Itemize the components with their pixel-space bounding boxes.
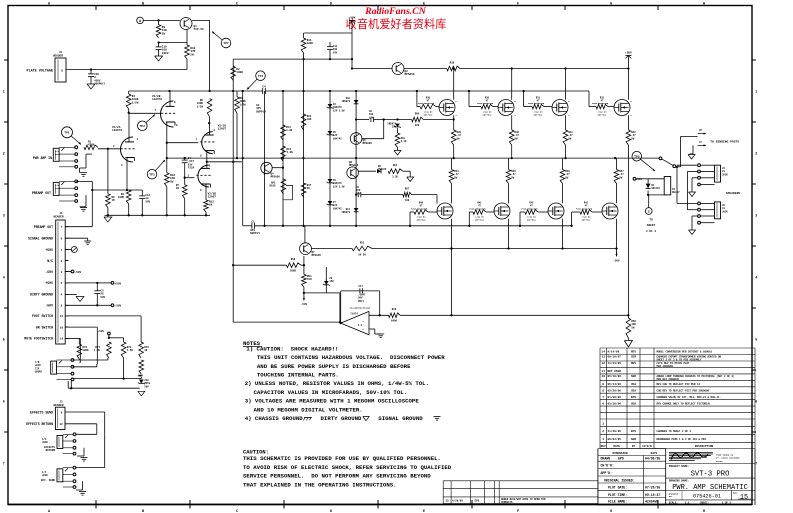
svg-text:TIP-50: TIP-50 — [194, 28, 204, 31]
svg-text:USA: USA — [631, 383, 636, 386]
svg-text:1M: 1M — [112, 199, 116, 202]
svg-text:SHEET 2 OF 3 & TB PCB ASSEMBLY: SHEET 2 OF 3 & TB PCB ASSEMBLY — [657, 359, 703, 362]
svg-text:1N4148: 1N4148 — [651, 187, 660, 190]
svg-text:R67: R67 — [405, 188, 410, 191]
svg-text:100K: 100K — [307, 42, 314, 45]
svg-text:DNP/B12: DNP/B12 — [527, 219, 536, 222]
svg-text:12: 12 — [59, 423, 63, 426]
svg-text:1: 1 — [3, 90, 5, 94]
svg-text:5W: 5W — [515, 137, 519, 140]
svg-text:+50V: +50V — [45, 281, 53, 285]
svg-text:EFFECTS SEND: EFFECTS SEND — [30, 410, 53, 414]
svg-text:06/02/95: 06/02/95 — [608, 437, 622, 441]
svg-text:1N4742: 1N4742 — [333, 207, 342, 210]
svg-text:09/10/97: 09/10/97 — [608, 355, 622, 359]
svg-text:POLY: POLY — [358, 300, 365, 303]
svg-text:FILM: FILM — [188, 167, 195, 170]
svg-text:-50V: -50V — [613, 260, 620, 263]
svg-text:5W: 5W — [511, 176, 515, 179]
svg-text:4/14/98: 4/14/98 — [608, 350, 620, 354]
svg-text:CHANGED VALUE OF C27, R13, R20: CHANGED VALUE OF C27, R13, R20-21 & R40-… — [657, 396, 722, 399]
svg-text:15K: 15K — [307, 278, 312, 281]
svg-text:14: 14 — [601, 351, 605, 354]
svg-text:7: 7 — [3, 462, 5, 466]
svg-text:NOT USED: NOT USED — [608, 370, 622, 373]
svg-text:05/14/96: 05/14/96 — [608, 382, 622, 386]
svg-text:05/10/96: 05/10/96 — [608, 374, 622, 378]
svg-text:B: B — [142, 3, 144, 7]
svg-text:DRAWN: DRAWN — [601, 457, 611, 461]
svg-text:12AU7: 12AU7 — [218, 128, 227, 131]
svg-text:13: 13 — [601, 356, 605, 359]
svg-text:PLOT DATE:: PLOT DATE: — [608, 486, 627, 490]
svg-text:H: H — [703, 3, 705, 7]
svg-text:+: + — [362, 328, 364, 331]
svg-text:+50V: +50V — [625, 52, 632, 55]
svg-text:R53: R53 — [360, 242, 365, 245]
svg-text:05/16/94: 05/16/94 — [608, 401, 622, 405]
svg-text:1.5K: 1.5K — [94, 349, 101, 352]
svg-text:1N4742: 1N4742 — [333, 137, 342, 140]
svg-text:5W: 5W — [568, 137, 572, 140]
svg-text:15: 15 — [445, 500, 449, 503]
svg-text:01/30/96: 01/30/96 — [608, 395, 622, 399]
svg-text:220: 220 — [415, 124, 420, 127]
svg-text:RadioFans.CN: RadioFans.CN — [364, 6, 427, 17]
svg-text:C4: C4 — [262, 86, 266, 89]
svg-text:—: — — [361, 320, 364, 323]
svg-text:2) UNLESS NOTED, RESISTOR VALU: 2) UNLESS NOTED, RESISTOR VALUES IN OHMS… — [245, 380, 429, 387]
svg-text:5: 5 — [755, 338, 757, 342]
svg-text:8: 8 — [61, 70, 63, 73]
svg-text:1N5979: 1N5979 — [341, 211, 350, 214]
svg-text:100V: 100V — [162, 52, 169, 55]
svg-text:6490: 6490 — [391, 320, 398, 323]
svg-text:11: 11 — [601, 370, 605, 373]
svg-text:4: 4 — [755, 276, 757, 280]
svg-text:SER: SER — [631, 375, 636, 378]
svg-text:100POLY: 100POLY — [94, 83, 105, 86]
svg-text:475K: 475K — [88, 144, 95, 147]
svg-text:1M: 1M — [176, 187, 180, 190]
svg-text:AND 10 MEGOHM DIGITAL VOLTMETE: AND 10 MEGOHM DIGITAL VOLTMETER. — [254, 406, 363, 413]
svg-text:J1: J1 — [59, 212, 63, 215]
svg-text:G: G — [648, 210, 650, 213]
svg-text:THAT EXPLAINED IN THE OPERATIN: THAT EXPLAINED IN THE OPERATING INSTRUCT… — [243, 481, 397, 488]
svg-text:MPSA56: MPSA56 — [405, 73, 415, 76]
svg-text:9: 9 — [602, 383, 604, 386]
svg-text:PREAMP OUT: PREAMP OUT — [32, 191, 51, 195]
svg-text:JACK: JACK — [42, 441, 48, 444]
svg-text:BIAS: BIAS — [269, 185, 276, 188]
svg-text:REV CHANGE ONLY TO REFLECT PIC: REV CHANGE ONLY TO REFLECT PICTORIAL — [657, 402, 712, 405]
svg-text:3.3K: 3.3K — [392, 176, 398, 179]
svg-text:CORRECTS: CORRECTS — [501, 501, 513, 504]
svg-text:05/20/96: 05/20/96 — [608, 388, 622, 392]
svg-text:5W: 5W — [619, 176, 623, 179]
svg-text:5W: 5W — [631, 137, 635, 140]
svg-text:100K: 100K — [118, 196, 125, 199]
svg-text:7: 7 — [602, 396, 604, 399]
svg-text:REORDERED PINS 1 & 2 OF J10 &: REORDERED PINS 1 & 2 OF J10 & PB1. — [657, 438, 708, 441]
svg-text:EPS: EPS — [475, 500, 480, 503]
svg-text:MPSA06: MPSA06 — [363, 142, 373, 145]
svg-text:12AU7: 12AU7 — [208, 196, 217, 199]
svg-text:-50V: -50V — [45, 270, 53, 274]
svg-text:FUSE-RESISTOR: FUSE-RESISTOR — [592, 102, 609, 105]
svg-text:DNP/B12: DNP/B12 — [483, 113, 492, 116]
svg-text:-50V: -50V — [301, 303, 308, 306]
svg-text:DNP/B12: DNP/B12 — [475, 219, 484, 222]
svg-text:+50V: +50V — [115, 282, 122, 285]
svg-text:C: C — [236, 3, 238, 7]
svg-text:THIS SCHEMATIC IS PROVIDED FOR: THIS SCHEMATIC IS PROVIDED FOR USE BY QU… — [243, 455, 441, 462]
svg-text:FUSE-RESISTOR: FUSE-RESISTOR — [469, 207, 486, 210]
svg-text:1N5979: 1N5979 — [341, 100, 350, 103]
svg-text:F: F — [517, 3, 519, 7]
svg-text:CH'K'D:: CH'K'D: — [601, 464, 614, 468]
svg-text:15V: 15V — [329, 280, 334, 283]
svg-text:390K: 390K — [82, 349, 89, 352]
svg-text:1W: 1W — [170, 180, 174, 183]
svg-text:MPSA56: MPSA56 — [312, 254, 322, 257]
svg-text:R19: R19 — [392, 308, 397, 311]
svg-text:J2: J2 — [59, 51, 63, 54]
svg-text:5W: 5W — [565, 176, 569, 179]
svg-text:REV: REV — [631, 362, 636, 365]
svg-text:8: 8 — [602, 389, 604, 392]
svg-text:DATE: DATE — [613, 445, 620, 448]
svg-text:FUSE-RESISTOR: FUSE-RESISTOR — [418, 102, 435, 105]
svg-text:收音机爱好者资料库: 收音机爱好者资料库 — [346, 17, 447, 31]
svg-text:PLOT TIME:: PLOT TIME: — [608, 493, 627, 497]
svg-text:09:19:47: 09:19:47 — [645, 493, 660, 497]
svg-text:4: 4 — [3, 276, 5, 280]
svg-text:SER: SER — [631, 438, 636, 441]
svg-text:DNP/B12: DNP/B12 — [417, 219, 426, 222]
svg-text:5W: 5W — [631, 326, 635, 329]
svg-text:DNP/B12: DNP/B12 — [534, 113, 543, 116]
svg-text:TO: TO — [649, 219, 653, 222]
svg-text:-50V: -50V — [45, 304, 53, 308]
svg-text:6: 6 — [3, 400, 5, 404]
svg-text:1.5K: 1.5K — [127, 349, 134, 352]
svg-text:2: 2 — [602, 430, 604, 433]
svg-text:5W: 5W — [457, 137, 461, 140]
svg-text:DNP/B12: DNP/B12 — [598, 113, 607, 116]
svg-text:200K: 200K — [290, 270, 297, 273]
svg-text:12V-1.5W: 12V-1.5W — [333, 185, 345, 188]
svg-text:16V: 16V — [369, 116, 374, 119]
svg-text:5W: 5W — [454, 176, 458, 179]
svg-text:GR SWITCH: GR SWITCH — [36, 325, 53, 329]
svg-text:DIMENSION: DIMENSION — [612, 452, 627, 455]
svg-text:1K: 1K — [144, 349, 148, 352]
svg-text:1K 5W: 1K 5W — [358, 254, 366, 257]
svg-text:6: 6 — [755, 400, 757, 404]
svg-text:6: 6 — [602, 402, 604, 405]
svg-text:PREAMP OUT: PREAMP OUT — [34, 225, 53, 229]
svg-text:3) VOLTAGES ARE MEASURED WITH: 3) VOLTAGES ARE MEASURED WITH 1 MEGOHM O… — [245, 398, 420, 405]
svg-text:AND BE SURE POWER SUPPLY IS DI: AND BE SURE POWER SUPPLY IS DISCHARGED B… — [257, 363, 411, 370]
svg-text:10K: 10K — [307, 118, 312, 121]
svg-text:HEADER: HEADER — [53, 404, 63, 407]
svg-text:HEADER: HEADER — [53, 216, 63, 219]
svg-text:FOOT SWITCH: FOOT SWITCH — [32, 314, 53, 318]
svg-text:JACK: JACK — [42, 474, 48, 477]
svg-text:BY: BY — [632, 445, 636, 448]
svg-text:MPSA06: MPSA06 — [271, 176, 281, 179]
svg-text:2 OF 3: 2 OF 3 — [646, 230, 656, 233]
svg-text:100: 100 — [405, 199, 410, 202]
svg-text:50V: 50V — [100, 296, 105, 299]
svg-text:C1: C1 — [251, 221, 255, 224]
svg-text:NO.: NO. — [669, 495, 673, 498]
svg-text:EPS: EPS — [631, 396, 636, 399]
svg-text:RETURN: RETURN — [46, 449, 56, 452]
svg-text:11/13/96: 11/13/96 — [608, 361, 622, 365]
svg-text:4) CHASSIS GROUND: 4) CHASSIS GROUND — [245, 415, 304, 422]
svg-text:(3+4)(5V)(6=+5V): (3+4)(5V)(6=+5V) — [349, 307, 370, 310]
svg-text:SHUNT: SHUNT — [35, 371, 43, 374]
svg-text:50V: 50V — [145, 200, 150, 203]
svg-text:13: 13 — [60, 315, 64, 318]
svg-text:12AX7A: 12AX7A — [112, 129, 122, 132]
svg-text:+50V: +50V — [349, 17, 356, 20]
svg-text:REV: REV — [631, 351, 636, 354]
svg-text:12: 12 — [601, 362, 605, 365]
svg-text:12V-1.5W: 12V-1.5W — [333, 109, 345, 112]
svg-text:FUSE-RESISTOR: FUSE-RESISTOR — [411, 207, 428, 210]
svg-text:R50: R50 — [291, 258, 296, 261]
svg-text:PLATE VOLTAGE: PLATE VOLTAGE — [27, 70, 53, 74]
svg-text:DESCRIPTION: DESCRIPTION — [695, 445, 714, 448]
svg-text:DIRTY GROUND: DIRTY GROUND — [321, 415, 363, 422]
svg-text:REV CHG TO REFLECT PIC PER CJ: REV CHG TO REFLECT PIC PER CJ — [657, 383, 701, 386]
svg-text:EFFECTS RETURN: EFFECTS RETURN — [26, 422, 53, 426]
svg-text:5.6K: 5.6K — [287, 151, 294, 154]
svg-text:1K: 1K — [307, 187, 311, 190]
svg-text:3: 3 — [602, 423, 604, 426]
svg-text:C17: C17 — [359, 285, 364, 288]
svg-text:TP4: TP4 — [258, 75, 264, 78]
svg-text:I:1: I:1 — [358, 324, 363, 327]
svg-text:1/2W: 1/2W — [132, 100, 139, 104]
svg-text:REV: REV — [601, 445, 606, 448]
svg-text:14: 14 — [60, 338, 64, 341]
svg-text:G: G — [610, 3, 612, 7]
svg-text:USA: USA — [631, 402, 636, 405]
svg-text:TL074: TL074 — [350, 313, 358, 316]
svg-text:10: 10 — [601, 375, 605, 378]
svg-text:50V: 50V — [144, 385, 149, 388]
svg-text:04/05/95: 04/05/95 — [645, 457, 660, 461]
svg-text:TP7: TP7 — [223, 42, 229, 45]
svg-text:SPEAKERS: SPEAKERS — [726, 192, 741, 195]
svg-text:R36: R36 — [450, 62, 455, 65]
svg-text:DIRTY GROUND: DIRTY GROUND — [30, 293, 53, 297]
svg-text:3: 3 — [755, 214, 757, 218]
svg-text:APP'D:: APP'D: — [601, 471, 613, 475]
svg-text:2N5979: 2N5979 — [378, 168, 387, 171]
svg-text:SER: SER — [631, 356, 636, 359]
svg-text:EPS: EPS — [618, 457, 624, 461]
svg-text:TOUCHING INTERNAL PARTS.: TOUCHING INTERNAL PARTS. — [257, 372, 339, 379]
svg-text:FILE NAME:: FILE NAME: — [608, 500, 627, 504]
svg-text:USA: USA — [631, 389, 636, 392]
svg-text:DATE: DATE — [651, 452, 658, 455]
svg-text:1) CAUTION: SHOCK HAZARD!!: 1) CAUTION: SHOCK HAZARD!! — [246, 345, 338, 352]
svg-text:-50V: -50V — [75, 271, 82, 274]
svg-text:EPS: EPS — [631, 430, 636, 433]
svg-text:SIGNAL GROUND: SIGNAL GROUND — [378, 415, 423, 422]
svg-text:D: D — [330, 3, 332, 7]
svg-text:EFF. SEND: EFF. SEND — [41, 479, 55, 482]
svg-text:075426-01: 075426-01 — [693, 494, 721, 500]
svg-text:-50V: -50V — [115, 305, 122, 308]
svg-text:5: 5 — [3, 338, 5, 342]
svg-text:PROJECT NAME:: PROJECT NAME: — [669, 465, 689, 468]
svg-text:4/29/99: 4/29/99 — [452, 499, 463, 503]
svg-text:15: 15 — [740, 493, 748, 501]
svg-text:180K: 180K — [236, 71, 243, 74]
svg-text:TP1: TP1 — [64, 132, 70, 135]
svg-text:J3: J3 — [59, 400, 63, 403]
svg-text:16V: 16V — [333, 51, 338, 54]
svg-text:FUSE-RESISTOR: FUSE-RESISTOR — [576, 207, 593, 210]
svg-text:SIGNAL GROUND: SIGNAL GROUND — [28, 237, 53, 241]
svg-text:11/20/96: 11/20/96 — [608, 429, 622, 433]
svg-text:2: 2 — [3, 152, 5, 156]
svg-text:2W: 2W — [190, 53, 194, 56]
svg-text:2W: 2W — [162, 32, 166, 35]
svg-text:2: 2 — [755, 152, 757, 156]
svg-text:SUPPLY: SUPPLY — [250, 232, 260, 235]
svg-text:3.3K: 3.3K — [286, 129, 293, 132]
svg-text:JACK: JACK — [55, 187, 61, 190]
svg-text:+50V: +50V — [98, 330, 105, 333]
svg-text:10: 10 — [60, 326, 64, 329]
svg-text:PWR AMP IN: PWR AMP IN — [33, 156, 52, 160]
svg-text:TO BINDING POSTS: TO BINDING POSTS — [710, 141, 739, 144]
svg-text:TO AVOID RISK OF ELECTRIC SHOC: TO AVOID RISK OF ELECTRIC SHOCK, REFER S… — [243, 464, 452, 471]
svg-text:MUTE FOOTSWITCH: MUTE FOOTSWITCH — [24, 337, 53, 341]
svg-text:FUSE-RESISTOR: FUSE-RESISTOR — [521, 207, 538, 210]
svg-text:R60: R60 — [415, 113, 420, 116]
svg-text:PER 2900065: PER 2900065 — [657, 365, 674, 368]
svg-text:FUSE-RESISTOR: FUSE-RESISTOR — [477, 102, 494, 105]
svg-text:HEADER: HEADER — [53, 55, 63, 58]
svg-text:ORIGINAL ISSUED:: ORIGINAL ISSUED: — [604, 478, 635, 482]
svg-text:PER B12 2900045: PER B12 2900045 — [657, 378, 680, 381]
svg-text:JACK: JACK — [722, 210, 728, 213]
svg-text:DNP/B12: DNP/B12 — [424, 113, 433, 116]
svg-text:63103: 63103 — [716, 460, 723, 463]
svg-text:+50V: +50V — [45, 248, 53, 252]
svg-text:42654WL: 42654WL — [645, 500, 658, 504]
svg-text:SERVICE PERSONNEL. DO NOT PER: SERVICE PERSONNEL. DO NOT PERFORM ANY SE… — [243, 473, 431, 480]
svg-text:DNP/B12: DNP/B12 — [582, 219, 591, 222]
svg-text:3: 3 — [3, 214, 5, 218]
svg-text:7: 7 — [755, 462, 757, 466]
svg-text:JACK: JACK — [722, 173, 728, 176]
svg-text:SHEET: SHEET — [647, 224, 656, 227]
svg-text:FUSE-RESISTOR: FUSE-RESISTOR — [528, 102, 545, 105]
svg-text:JACK: JACK — [55, 153, 61, 156]
svg-text:THIS UNIT CONTAINS HAZARDOUS V: THIS UNIT CONTAINS HAZARDOUS VOLTAGE. DI… — [257, 354, 445, 361]
svg-text:SVT-3 PRO: SVT-3 PRO — [691, 471, 730, 479]
svg-text:07/26/95: 07/26/95 — [645, 486, 660, 490]
svg-text:1: 1 — [602, 438, 604, 441]
svg-text:R64: R64 — [393, 164, 398, 167]
svg-text:CH'K'D: CH'K'D — [642, 444, 652, 448]
svg-text:N/C: N/C — [47, 259, 53, 263]
svg-text:1K: 1K — [209, 204, 213, 207]
svg-text:1/2W: 1/2W — [197, 104, 204, 108]
svg-text:15V: 15V — [392, 126, 397, 129]
svg-text:CAPACITOR VALUES IN MICROFARAD: CAPACITOR VALUES IN MICROFARADS, 50V-10%… — [254, 389, 408, 396]
svg-text:12AX7A: 12AX7A — [152, 98, 162, 101]
svg-text:MODEL CONVERSION PER 2070087 &: MODEL CONVERSION PER 2070087 & 880010 — [657, 351, 713, 354]
svg-text:DRAWING NAME:: DRAWING NAME: — [669, 480, 689, 483]
svg-text:REV: REV — [733, 492, 738, 495]
svg-text:TP2: TP2 — [140, 125, 146, 128]
svg-text:TP3: TP3 — [149, 173, 155, 176]
svg-text:CHG REV TO REFLECT PICT PER 29: CHG REV TO REFLECT PICT PER 2900000 — [657, 389, 710, 392]
svg-text:MPSA06: MPSA06 — [349, 164, 359, 167]
svg-text:1: 1 — [755, 90, 757, 94]
svg-text:CHANGES TO SHEET 2 OF 3: CHANGES TO SHEET 2 OF 3 — [657, 430, 692, 433]
svg-text:5.1K: 5.1K — [401, 140, 407, 143]
svg-text:RELAY: RELAY — [672, 191, 680, 194]
svg-text:50V: 50V — [356, 192, 361, 195]
